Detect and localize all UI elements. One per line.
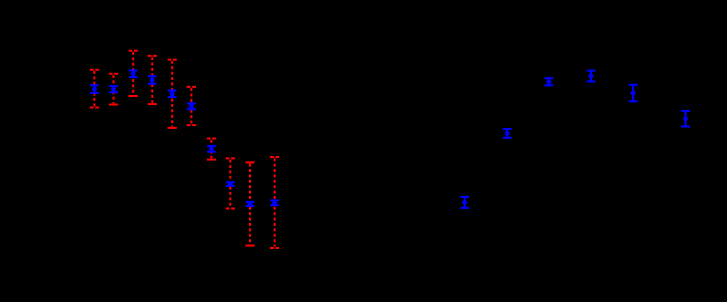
point L9 red error bar <box>245 162 254 245</box>
point L3 red error bar <box>129 51 138 96</box>
point L10 blue marker with error bar <box>270 200 279 205</box>
point L6 blue marker with error bar <box>187 103 196 109</box>
point L10 red error bar <box>270 157 279 248</box>
point L1 blue marker with error bar <box>90 85 99 93</box>
point L8 blue marker with error bar <box>226 182 235 187</box>
point L5 red error bar <box>168 60 177 128</box>
point L4 red error bar <box>148 56 157 104</box>
point L3 blue marker with error bar <box>129 70 138 77</box>
point L7 blue marker with error bar <box>207 146 216 152</box>
point R3 blue marker with error bar <box>545 78 554 85</box>
point L6 red error bar <box>187 87 196 125</box>
point R2 blue marker with error bar <box>503 129 512 138</box>
point R4 blue marker with error bar <box>587 71 596 82</box>
point L7 red error bar <box>207 139 216 160</box>
point L5 blue marker with error bar <box>168 91 177 98</box>
point L4 blue marker with error bar <box>148 76 157 84</box>
point R6 blue marker with error bar <box>681 111 690 127</box>
point L2 blue marker with error bar <box>109 86 118 92</box>
point R1 blue marker with error bar <box>460 197 469 208</box>
point L1 red error bar <box>90 70 99 108</box>
point L9 blue marker with error bar <box>246 202 255 207</box>
point R5 blue marker with error bar <box>629 85 638 102</box>
point L8 red error bar <box>226 158 235 208</box>
point L2 red error bar <box>109 74 118 105</box>
